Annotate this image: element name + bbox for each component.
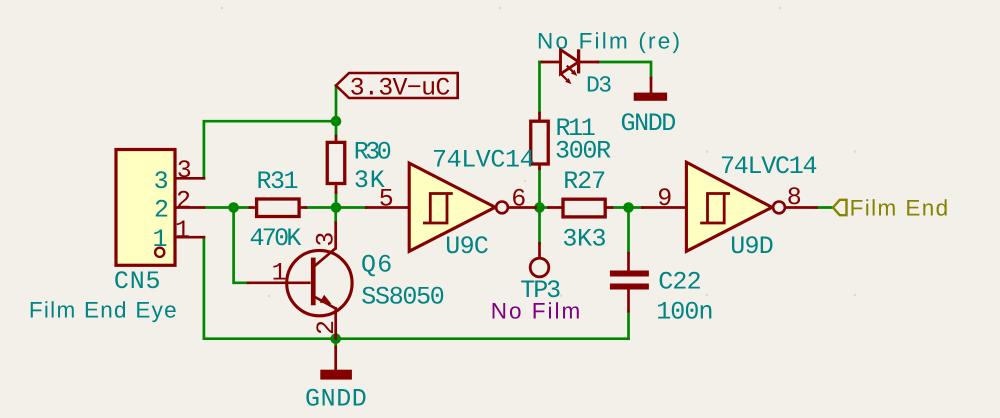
svg-text:3: 3	[177, 156, 192, 185]
svg-text:1: 1	[175, 216, 190, 245]
svg-text:2: 2	[176, 186, 191, 215]
svg-text:100n: 100n	[656, 297, 712, 326]
svg-text:300R: 300R	[555, 137, 611, 166]
svg-text:5: 5	[379, 184, 394, 213]
svg-text:74LVC14: 74LVC14	[432, 145, 534, 174]
svg-text:U9C: U9C	[445, 232, 488, 261]
svg-text:3.3V−uC: 3.3V−uC	[350, 73, 450, 102]
svg-text:3K3: 3K3	[562, 225, 606, 254]
svg-text:3: 3	[311, 232, 340, 247]
svg-text:1: 1	[153, 225, 168, 254]
svg-text:1: 1	[272, 259, 287, 288]
svg-text:Q6: Q6	[361, 251, 394, 280]
svg-text:2: 2	[154, 195, 169, 224]
svg-text:CN5: CN5	[114, 267, 161, 296]
svg-text:3: 3	[154, 167, 169, 196]
svg-text:No Film: No Film	[491, 299, 583, 324]
svg-text:8: 8	[787, 183, 802, 212]
svg-text:U9D: U9D	[730, 232, 773, 261]
svg-text:C22: C22	[658, 267, 701, 296]
svg-text:R27: R27	[563, 167, 605, 196]
svg-text:R31: R31	[257, 167, 298, 196]
svg-text:D3: D3	[586, 73, 611, 99]
svg-text:9: 9	[657, 184, 672, 213]
svg-text:GNDD: GNDD	[621, 109, 676, 138]
svg-text:74LVC14: 74LVC14	[720, 152, 817, 181]
svg-text:No Film (re): No Film (re)	[537, 29, 682, 54]
svg-text:GNDD: GNDD	[305, 385, 367, 414]
svg-text:R30: R30	[354, 138, 391, 167]
svg-text:470K: 470K	[250, 224, 302, 253]
svg-text:2: 2	[312, 320, 341, 335]
svg-text:Film End Eye: Film End Eye	[29, 298, 178, 323]
svg-text:SS8050: SS8050	[361, 283, 444, 312]
svg-text:6: 6	[511, 184, 526, 213]
svg-text:Film End: Film End	[850, 195, 950, 220]
